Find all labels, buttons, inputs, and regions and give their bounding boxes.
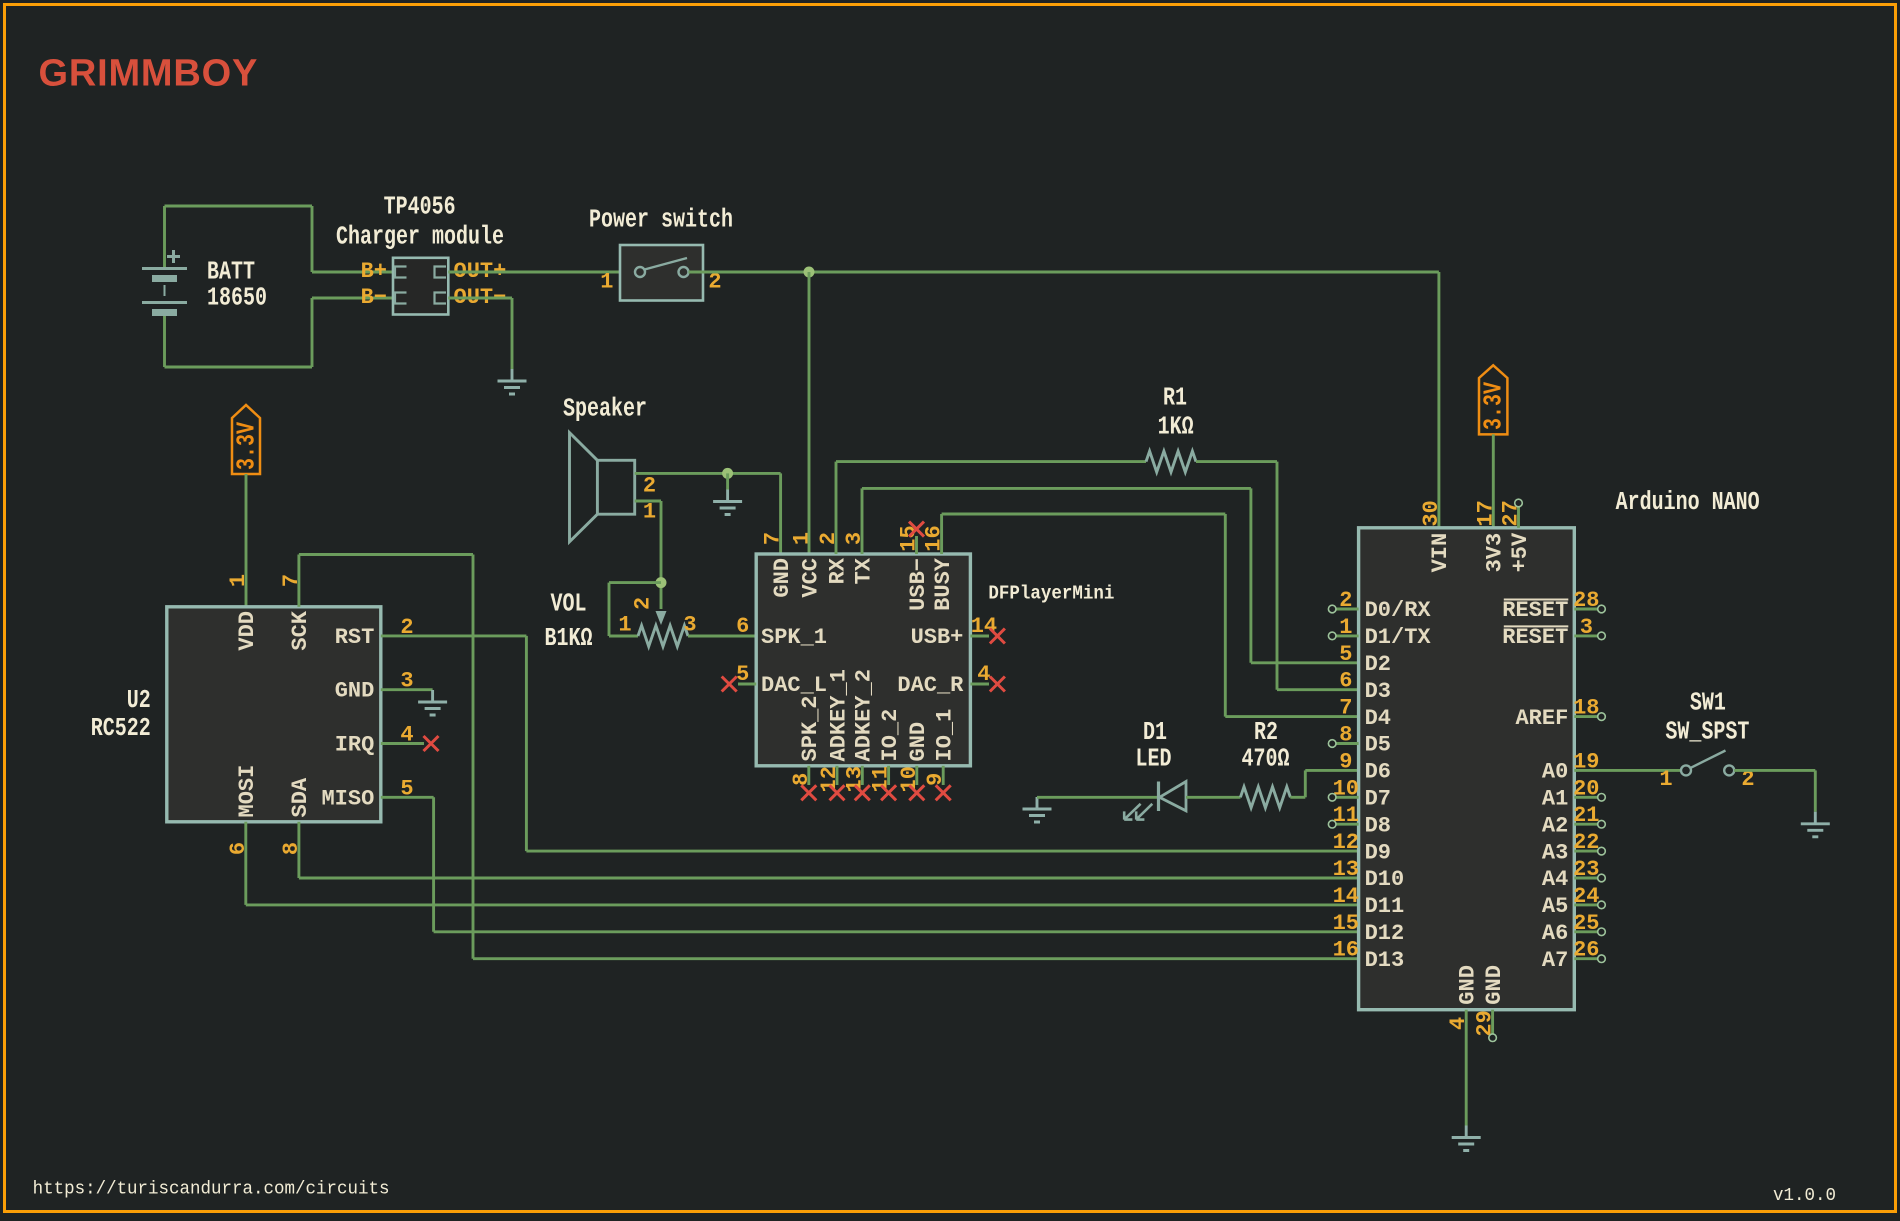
svg-text:1: 1: [789, 532, 814, 545]
3.3V power flag right: [1479, 365, 1507, 434]
DFPlayer bottom pin numbers: [789, 766, 948, 792]
svg-text:DAC_L: DAC_L: [761, 673, 827, 698]
wire switch pin 2 to VIN net: [689, 271, 1439, 274]
wire MISO to D12: [381, 796, 434, 799]
svg-text:IO_1: IO_1: [933, 709, 958, 762]
svg-text:B1KΩ: B1KΩ: [544, 624, 592, 653]
wire wiper to pot pin 1 jog: [609, 581, 661, 584]
resistor R2: [1240, 787, 1290, 808]
wire loop right down to B+: [311, 206, 314, 272]
svg-text:GRIMMBOY: GRIMMBOY: [39, 53, 259, 95]
svg-text:3: 3: [683, 613, 696, 638]
Arduino left no-connect stubs: [1328, 605, 1358, 828]
wire SCK to D13: [297, 555, 300, 607]
wire battery bottom: [163, 315, 166, 368]
Arduino right pin names: [1502, 598, 1568, 973]
svg-text:D2: D2: [1365, 652, 1391, 677]
wire A0 to SW1: [1574, 769, 1681, 772]
wire RST to D9: [381, 634, 527, 637]
Arduino bottom pin names: [1456, 965, 1507, 1005]
svg-text:7: 7: [761, 532, 786, 545]
no-connect USB+: [970, 635, 989, 638]
Arduino NANO body: [1359, 528, 1575, 1010]
svg-text:1KΩ: 1KΩ: [1158, 412, 1194, 441]
ground TP4056 OUT-: [498, 369, 527, 394]
svg-text:5: 5: [1339, 642, 1352, 667]
svg-text:D12: D12: [1365, 921, 1405, 946]
svg-text:DAC_R: DAC_R: [897, 673, 964, 698]
svg-text:+5V: +5V: [1508, 532, 1533, 572]
svg-text:RESET: RESET: [1502, 598, 1568, 623]
Arduino bottom pin numbers: [1446, 1010, 1497, 1036]
wire B+ into TP4056: [312, 271, 393, 274]
ground Arduino: [1452, 1126, 1481, 1151]
svg-text:MISO: MISO: [321, 786, 374, 811]
DFPlayer bottom pin names: [798, 669, 957, 761]
svg-text:https://turiscandurra.com/circ: https://turiscandurra.com/circuits: [33, 1179, 390, 1200]
svg-text:A2: A2: [1542, 813, 1568, 838]
power switch body: [620, 245, 703, 301]
svg-text:GND: GND: [770, 558, 795, 598]
switch SW1: [1681, 751, 1734, 776]
svg-text:30: 30: [1419, 500, 1444, 526]
svg-text:15: 15: [1333, 911, 1359, 936]
wire B- into TP4056: [312, 297, 393, 300]
wire MOSI to D11: [244, 822, 247, 905]
svg-text:GND: GND: [335, 679, 375, 704]
svg-text:SPK_2: SPK_2: [798, 695, 823, 761]
svg-text:7: 7: [1339, 696, 1352, 721]
svg-text:3.3V: 3.3V: [1479, 382, 1508, 430]
svg-text:VIN: VIN: [1428, 533, 1453, 573]
wire loop top horizontal: [165, 205, 313, 208]
svg-text:v1.0.0: v1.0.0: [1773, 1185, 1836, 1206]
svg-text:GND: GND: [906, 722, 931, 762]
svg-text:D8: D8: [1365, 813, 1391, 838]
svg-text:6: 6: [1339, 669, 1352, 694]
wire R1 to D3: [1196, 460, 1277, 463]
svg-text:Charger module: Charger module: [336, 222, 504, 251]
wire TX to D2: [862, 487, 1251, 490]
wire DFPlayer GND pin drop: [779, 473, 782, 554]
no-connect USB-: [915, 536, 918, 554]
no-connect DAC_R: [970, 683, 989, 686]
svg-text:1: 1: [600, 270, 613, 295]
wire RX to R1: [836, 460, 1146, 463]
wire speaker pin 2 to DFPlayer GND: [635, 472, 781, 475]
svg-text:16: 16: [1333, 938, 1359, 963]
wire ground to LED: [1037, 796, 1158, 799]
svg-text:BUSY: BUSY: [931, 557, 956, 611]
svg-text:D11: D11: [1365, 894, 1405, 919]
3.3V power flag left: [232, 405, 260, 474]
svg-text:RC522: RC522: [91, 714, 151, 743]
DFPlayer top pin numbers: [761, 525, 947, 551]
junction pot wiper: [656, 577, 667, 588]
svg-text:LED: LED: [1135, 744, 1171, 773]
svg-text:A4: A4: [1542, 867, 1568, 892]
svg-text:3.3V: 3.3V: [232, 422, 261, 470]
speaker LS1: [570, 433, 635, 542]
svg-text:B−: B−: [361, 285, 387, 310]
svg-text:D0/RX: D0/RX: [1365, 598, 1432, 623]
wire SDA to D10: [297, 822, 300, 878]
svg-text:ADKEY_1: ADKEY_1: [826, 669, 851, 761]
svg-text:D13: D13: [1365, 948, 1405, 973]
svg-text:SDA: SDA: [288, 777, 313, 817]
svg-text:12: 12: [1333, 830, 1359, 855]
svg-text:SPK_1: SPK_1: [761, 625, 827, 650]
Arduino top pin numbers: [1419, 500, 1524, 526]
svg-text:D9: D9: [1365, 840, 1391, 865]
LED D1: [1124, 782, 1186, 820]
svg-text:D10: D10: [1365, 867, 1405, 892]
no-connect +5V: [1517, 507, 1520, 528]
wire speaker pin 1: [635, 500, 661, 503]
wire OUT+ to switch pin 1: [448, 271, 635, 274]
svg-text:R1: R1: [1163, 383, 1187, 412]
wire LED to R2: [1186, 796, 1241, 799]
svg-text:VOL: VOL: [550, 589, 586, 618]
no-connect GND 29: [1491, 1010, 1494, 1034]
TP4056 pin sockets: [395, 267, 446, 304]
svg-text:RX: RX: [825, 557, 850, 584]
svg-text:A1: A1: [1542, 787, 1568, 812]
svg-text:TP4056: TP4056: [384, 192, 456, 221]
TP4056 charger module body: [393, 258, 448, 315]
svg-text:GND: GND: [1482, 965, 1507, 1005]
svg-text:VCC: VCC: [799, 558, 824, 598]
ground RC522: [418, 690, 447, 715]
svg-text:18650: 18650: [207, 283, 267, 312]
svg-text:Power switch: Power switch: [589, 205, 733, 234]
svg-text:ADKEY_2: ADKEY_2: [852, 669, 877, 761]
svg-text:3V3: 3V3: [1483, 533, 1508, 573]
DFPlayer bottom pin stubs with no-connect: [801, 766, 950, 801]
svg-text:1: 1: [643, 500, 656, 525]
Arduino right pin numbers: [1573, 588, 1599, 963]
svg-text:MOSI: MOSI: [235, 765, 260, 818]
wire 3.3V to RC522 VDD: [245, 474, 248, 607]
svg-text:IRQ: IRQ: [335, 733, 375, 758]
svg-text:U2: U2: [127, 686, 151, 715]
battery BATT 18650: [142, 250, 187, 313]
svg-text:A5: A5: [1542, 894, 1568, 919]
Arduino top pin names: [1428, 532, 1533, 572]
svg-text:D5: D5: [1365, 733, 1391, 758]
power switch contacts and lever: [635, 258, 689, 277]
wire pot pin 3 to SPK_1: [688, 635, 756, 638]
svg-text:1: 1: [226, 574, 251, 587]
wire loop bottom horizontal: [165, 366, 313, 369]
svg-text:D6: D6: [1365, 760, 1391, 785]
svg-text:USB+: USB+: [911, 625, 964, 650]
junction speaker ground: [722, 468, 733, 479]
svg-text:14: 14: [1333, 884, 1359, 909]
svg-text:BATT: BATT: [207, 257, 255, 286]
wire R2 to D6: [1290, 796, 1305, 799]
Arduino right no-connect stubs: [1574, 605, 1605, 962]
svg-text:470Ω: 470Ω: [1241, 744, 1289, 773]
svg-text:VDD: VDD: [235, 611, 260, 651]
svg-text:2: 2: [631, 597, 656, 610]
svg-text:AREF: AREF: [1515, 706, 1568, 731]
wire BUSY to D4: [942, 513, 1226, 516]
wire down to Arduino VIN: [1437, 272, 1440, 528]
potentiometer RV1 B1K: [638, 611, 688, 647]
ground speaker: [713, 490, 742, 515]
resistor R1: [1146, 451, 1196, 472]
wire junction down to ground: [726, 473, 729, 489]
wire DFPlayer TX drop: [861, 488, 864, 554]
svg-text:A3: A3: [1542, 840, 1568, 865]
svg-text:13: 13: [1333, 857, 1359, 882]
svg-text:IO_2: IO_2: [878, 709, 903, 762]
svg-text:DFPlayerMini: DFPlayerMini: [988, 582, 1114, 605]
junction power net to VCC: [804, 267, 815, 278]
DFPlayer top pin names: [770, 557, 956, 611]
svg-text:6: 6: [736, 614, 749, 639]
Arduino left pin numbers: [1333, 588, 1359, 963]
wire 3.3V flag to 3V3 pin: [1492, 434, 1495, 527]
svg-text:B+: B+: [361, 259, 387, 284]
wire Arduino GND to ground: [1465, 1010, 1468, 1126]
svg-text:D4: D4: [1365, 706, 1391, 731]
svg-text:D7: D7: [1365, 787, 1391, 812]
svg-text:R2: R2: [1254, 718, 1278, 747]
svg-text:A7: A7: [1542, 948, 1568, 973]
svg-text:RST: RST: [335, 625, 375, 650]
svg-text:SCK: SCK: [288, 610, 313, 650]
svg-text:2: 2: [643, 474, 656, 499]
svg-text:USB−: USB−: [906, 558, 931, 611]
svg-text:TX: TX: [851, 557, 876, 584]
svg-text:1: 1: [1659, 767, 1672, 792]
Arduino left pin names: [1365, 598, 1432, 973]
svg-text:D3: D3: [1365, 679, 1391, 704]
DFPlayerMini body: [756, 554, 970, 766]
RC522 body: [167, 607, 381, 822]
svg-text:A0: A0: [1542, 760, 1568, 785]
svg-text:1: 1: [618, 613, 631, 638]
wire speaker pin 1 down to pot wiper: [660, 501, 663, 609]
svg-text:GND: GND: [1456, 965, 1481, 1005]
svg-text:Arduino NANO: Arduino NANO: [1616, 488, 1760, 517]
svg-text:RESET: RESET: [1502, 625, 1568, 650]
wire DFPlayer BUSY drop: [940, 514, 943, 554]
svg-text:9: 9: [1339, 749, 1352, 774]
svg-text:SW1: SW1: [1690, 688, 1726, 717]
no-connect DAC_L: [738, 683, 756, 686]
wire DFPlayer RX drop: [835, 462, 838, 554]
svg-text:SW_SPST: SW_SPST: [1665, 717, 1749, 746]
wire RC522 GND to ground: [381, 688, 433, 691]
wire down to DFPlayer VCC: [808, 272, 811, 554]
ground LED: [1023, 797, 1052, 822]
wire SW1 to ground: [1734, 769, 1815, 772]
wire OUT- right: [448, 297, 512, 300]
wire battery top to loop: [163, 206, 166, 269]
svg-text:Speaker: Speaker: [563, 394, 647, 423]
wire loop right up to B-: [311, 298, 314, 367]
svg-text:17: 17: [1473, 500, 1498, 526]
svg-text:D1: D1: [1143, 718, 1167, 747]
wire OUT- down to ground: [511, 298, 514, 369]
svg-text:D1/TX: D1/TX: [1365, 625, 1432, 650]
no-connect RC522 IRQ: [381, 742, 424, 745]
ground SW1: [1801, 812, 1830, 837]
svg-text:A6: A6: [1542, 921, 1568, 946]
